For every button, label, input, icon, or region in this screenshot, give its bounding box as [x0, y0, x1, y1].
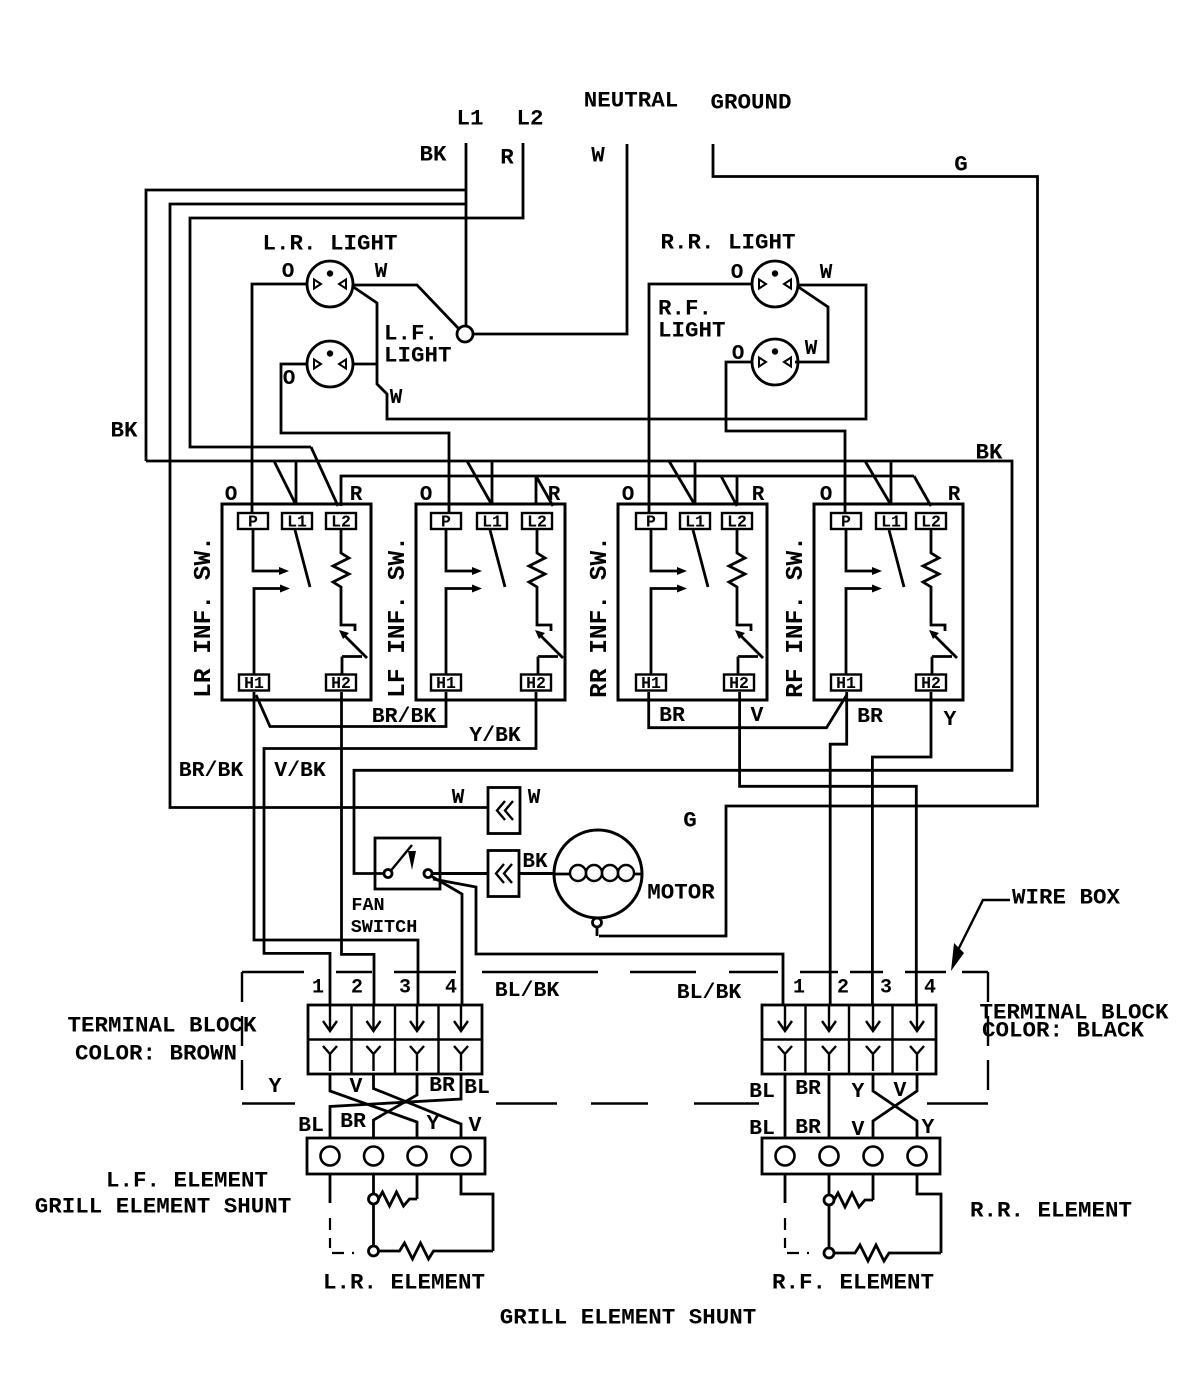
svg-text:SWITCH: SWITCH	[351, 917, 418, 938]
svg-text:3: 3	[880, 977, 892, 1000]
lamp R.R. LIGHT body	[752, 261, 798, 307]
node left lower shunt circle	[369, 1246, 379, 1256]
svg-text:L1: L1	[456, 106, 483, 132]
wire Y brown T1 to element 3	[330, 1074, 417, 1138]
svg-text:NEUTRAL: NEUTRAL	[584, 88, 679, 114]
terminal block brown pin 3 fork	[410, 1046, 424, 1071]
terminal block brown pin 2 fork	[367, 1046, 381, 1071]
switch SW3 wire to H2	[738, 657, 758, 675]
svg-text:W: W	[528, 787, 541, 810]
wire box dashed top edge	[905, 971, 946, 973]
element connector right outline	[762, 1138, 940, 1174]
svg-text:O: O	[225, 484, 238, 507]
wire Y SW4 H2 down to black T3	[872, 692, 931, 1005]
svg-text:Y: Y	[944, 708, 957, 732]
motor coil loop 4	[618, 865, 634, 881]
switch SW2 P contact line	[446, 529, 472, 571]
wire BL/BK fan to brown T4	[431, 876, 462, 1005]
switch SW2 outline	[416, 504, 565, 700]
switch SW3 P contact line	[651, 529, 677, 571]
switch SW1 H1 contact line	[254, 589, 280, 675]
switch SW1 upper contact arrow	[279, 567, 289, 575]
wire BR/BK SW1 H1 down to brown T3	[254, 692, 418, 1005]
wire box dashed top edge	[630, 971, 696, 973]
terminal block brown column divider 2	[394, 1005, 396, 1074]
switch SW2 wire to H2	[538, 657, 558, 675]
svg-text:LIGHT: LIGHT	[658, 318, 726, 344]
svg-text:BL: BL	[464, 1076, 490, 1100]
terminal block black pin 1 fork	[778, 1046, 792, 1071]
lamp R.R. LIGHT right pin	[784, 280, 791, 289]
svg-text:W: W	[591, 143, 605, 169]
svg-text:2: 2	[351, 977, 363, 1000]
svg-text:R.R. ELEMENT: R.R. ELEMENT	[970, 1198, 1132, 1224]
wire BR brown T3 to element 2	[374, 1074, 418, 1138]
svg-text:BR/BK: BR/BK	[372, 705, 437, 729]
svg-text:TERMINAL BLOCK: TERMINAL BLOCK	[67, 1013, 257, 1039]
wire motor bottom stub	[596, 927, 599, 936]
wire BK jog into SW3 L1	[669, 461, 695, 505]
wire left element2 to upper shunt	[372, 1174, 375, 1194]
terminal box SW3 H1	[636, 675, 666, 691]
switch SW4 thermostat arrowhead	[929, 630, 939, 639]
svg-text:L2: L2	[331, 513, 351, 532]
terminal block black pin 4 fork	[910, 1046, 924, 1071]
wire box dashed bottom edge	[927, 1102, 988, 1104]
wire W branch left-down to fan connector	[170, 204, 488, 808]
svg-text:O: O	[731, 262, 744, 285]
fan switch right pin	[424, 870, 432, 878]
svg-text:O: O	[820, 484, 833, 507]
svg-text:BK: BK	[975, 440, 1003, 466]
terminal block black pin 2 fork	[822, 1046, 836, 1071]
terminal block brown pin 1 arrow head	[323, 1021, 337, 1031]
terminal block brown pin 2 wire	[372, 1005, 374, 1029]
terminal block brown row divider	[308, 1038, 482, 1040]
svg-text:BR: BR	[795, 1077, 821, 1101]
wire V black T4 to element 3	[873, 1074, 917, 1137]
motor body	[554, 830, 642, 918]
switch SW4 L1 blade diagonal	[889, 530, 904, 587]
lamp L.F. LIGHT center dot	[327, 350, 333, 356]
svg-text:H2: H2	[921, 674, 941, 693]
switch SW4 wire to H2	[932, 657, 952, 675]
terminal block brown pin 4 wire	[460, 1005, 462, 1029]
wire BL/BK fan to black T1	[433, 879, 783, 1005]
wire O from LR light to SW1 P	[252, 284, 307, 513]
terminal box SW4 H2	[916, 675, 946, 691]
fan switch arm	[391, 845, 412, 871]
lamp L.F. LIGHT right pin	[339, 360, 346, 369]
terminal box SW1 P	[238, 513, 268, 529]
wire left element1 dashed continuation	[329, 1218, 331, 1248]
switch SW2 resistor element	[529, 529, 551, 631]
element connector left circle 3	[408, 1147, 427, 1166]
wire R branch jog into SW2 L2	[536, 476, 553, 506]
switch SW3 upper contact arrow	[677, 567, 687, 575]
switch SW2 L1 blade diagonal	[490, 530, 505, 587]
switch SW1 P contact line	[253, 529, 279, 571]
wire box dashed bottom edge	[496, 1102, 557, 1104]
wire BR black T2 to element 2	[828, 1074, 831, 1138]
element connector left circle 2	[364, 1147, 383, 1166]
element connector left circle 4	[452, 1147, 471, 1166]
wire left element3 to upper shunt	[416, 1174, 419, 1199]
wire R branch jog into SW4 L2	[914, 476, 931, 506]
svg-text:2: 2	[837, 977, 849, 1000]
terminal block brown pin 4 arrow head	[454, 1021, 468, 1031]
lamp L.R. LIGHT body	[307, 261, 353, 307]
svg-text:G: G	[683, 808, 697, 834]
svg-text:COLOR: BLACK: COLOR: BLACK	[982, 1018, 1145, 1044]
wire left element4 wrap to lower shunt	[461, 1174, 493, 1251]
svg-text:H2: H2	[331, 674, 351, 693]
wire BK jog into SW4 L1	[865, 461, 891, 505]
switch SW2 lower contact arrow	[472, 585, 482, 593]
wire W neutral down to junction circle	[473, 144, 627, 334]
wire box dashed top edge	[482, 971, 598, 973]
node motor bottom terminal circle	[593, 918, 602, 927]
wire Y black T3 to element 4	[873, 1074, 917, 1137]
lamp L.R. LIGHT right pin	[339, 280, 346, 289]
wire box dashed top edge	[962, 971, 988, 973]
resistor left upper shunt	[379, 1192, 418, 1206]
svg-text:GRILL ELEMENT SHUNT: GRILL ELEMENT SHUNT	[35, 1194, 292, 1220]
lamp L.R. LIGHT left pin	[314, 280, 321, 289]
switch SW2 H1 contact line	[446, 589, 472, 675]
svg-text:P: P	[841, 513, 851, 532]
motor coil loop 2	[586, 865, 602, 881]
terminal block brown pin 3 wire	[416, 1005, 418, 1029]
switch SW1 wire to H2	[342, 657, 362, 675]
svg-text:H2: H2	[729, 674, 749, 693]
terminal block black pin 1 wire	[784, 1005, 786, 1029]
wire box dashed bottom edge	[242, 1102, 295, 1104]
element connector right circle 2	[820, 1147, 839, 1166]
svg-text:R: R	[948, 484, 961, 507]
svg-text:GROUND: GROUND	[710, 90, 791, 116]
lamp R.F. LIGHT center dot	[772, 348, 778, 354]
wire Y/BK SW2 H2 to brown T1	[264, 692, 536, 1005]
svg-text:BR: BR	[429, 1074, 455, 1098]
svg-text:MOTOR: MOTOR	[647, 880, 715, 906]
svg-text:H1: H1	[641, 674, 661, 693]
switch SW3 H1 contact line	[651, 589, 677, 675]
svg-text:H1: H1	[244, 674, 264, 693]
node right upper shunt circle	[824, 1195, 834, 1205]
connector BK chevrons	[496, 864, 512, 883]
wire R branch bus to L2 terminals	[341, 476, 914, 506]
svg-text:LR INF. SW.: LR INF. SW.	[191, 536, 218, 698]
switch SW4 thermostat arm	[932, 633, 957, 658]
terminal box SW3 P	[636, 513, 666, 529]
wire box leader line	[958, 900, 1010, 950]
svg-text:V: V	[751, 704, 764, 728]
svg-text:R.F. ELEMENT: R.F. ELEMENT	[772, 1270, 934, 1296]
element connector right circle 4	[908, 1147, 927, 1166]
svg-text:V: V	[350, 1075, 363, 1099]
switch SW1 thermostat arm	[342, 633, 367, 658]
svg-text:W: W	[390, 387, 403, 410]
wire box dashed top edge	[394, 971, 456, 973]
terminal box SW1 H1	[239, 675, 269, 691]
wire right element1 stub	[784, 1174, 787, 1203]
svg-text:4: 4	[445, 977, 457, 1000]
terminal box SW2 H1	[431, 675, 461, 691]
svg-text:R.R. LIGHT: R.R. LIGHT	[660, 230, 795, 256]
switch SW4 outline	[814, 504, 963, 700]
wire O from RR light to SW3 P	[649, 284, 752, 513]
svg-text:Y: Y	[269, 1075, 282, 1099]
switch SW2 upper contact arrow	[472, 567, 482, 575]
wire W diagonal junction to LR light W pin	[352, 285, 459, 329]
svg-text:BK: BK	[110, 418, 138, 444]
svg-text:1: 1	[793, 977, 805, 1000]
terminal box SW3 H2	[724, 675, 754, 691]
switch SW3 resistor element	[729, 529, 751, 631]
switch SW4 upper contact arrow	[872, 567, 882, 575]
terminal box SW2 L1	[477, 513, 507, 529]
wire box dashed bottom edge	[591, 1102, 648, 1104]
wire box dashed top edge	[850, 971, 883, 973]
wire R branch jog into SW3 L2	[721, 476, 737, 506]
svg-text:L2: L2	[727, 513, 747, 532]
svg-text:L.F. ELEMENT: L.F. ELEMENT	[106, 1168, 268, 1194]
connector W box	[488, 788, 520, 834]
svg-text:R: R	[350, 484, 363, 507]
element connector right circle 1	[776, 1147, 795, 1166]
svg-text:H1: H1	[436, 674, 456, 693]
wire BR SW4 H1 down to black T2	[830, 692, 847, 1005]
fan switch box	[375, 838, 440, 889]
wire box dashed top edge	[729, 971, 778, 973]
terminal box SW1 L2	[326, 513, 356, 529]
svg-text:O: O	[622, 484, 635, 507]
terminal block brown pin 2 arrow head	[367, 1021, 381, 1031]
switch SW1 outline	[222, 504, 371, 700]
wire BK branch left and down to bus	[146, 190, 466, 461]
svg-text:RR INF. SW.: RR INF. SW.	[587, 536, 614, 698]
wire W RR light diagonal to RF light W pin	[795, 286, 828, 362]
motor coil loop 3	[602, 865, 618, 881]
element connector right circle 3	[864, 1147, 883, 1166]
switch SW4 H1 contact line	[846, 589, 872, 675]
terminal block black row divider	[762, 1038, 936, 1040]
terminal box SW1 H2	[326, 675, 356, 691]
svg-text:COLOR: BROWN: COLOR: BROWN	[75, 1041, 237, 1067]
svg-text:Y: Y	[922, 1116, 935, 1140]
lamp R.F. LIGHT right pin	[784, 358, 791, 367]
wire O from LF light to SW2 P	[281, 364, 449, 513]
svg-text:R: R	[500, 145, 514, 171]
svg-text:W: W	[820, 262, 833, 285]
terminal block black column divider 3	[891, 1005, 893, 1074]
svg-text:FAN: FAN	[351, 895, 384, 916]
terminal block black pin 3 wire	[872, 1005, 874, 1029]
wire V SW3 H2 down to black T4	[740, 692, 917, 1005]
svg-text:4: 4	[924, 977, 936, 1000]
svg-text:L1: L1	[482, 513, 502, 532]
wire G ground bus right side down to motor bottom	[599, 144, 1038, 936]
fan switch arrow	[408, 851, 416, 870]
wire L1 down to junction circle	[465, 143, 468, 326]
wire V brown T2 to element 4	[374, 1074, 462, 1138]
svg-text:BL: BL	[298, 1114, 324, 1138]
switch SW2 thermostat arrowhead	[535, 630, 545, 639]
terminal block brown column divider 3	[437, 1005, 439, 1074]
switch SW4 P contact line	[846, 529, 872, 571]
terminal box SW4 P	[831, 513, 861, 529]
switch SW2 thermostat arm	[538, 633, 563, 658]
svg-text:LF INF. SW.: LF INF. SW.	[385, 536, 412, 698]
switch SW1 L1 blade diagonal	[295, 530, 310, 587]
terminal block black pin 4 arrow head	[910, 1021, 924, 1031]
terminal block black pin 1 arrow head	[778, 1021, 792, 1031]
element connector left outline	[307, 1138, 485, 1174]
wire BR/BK link SW1 H1 to SW2 H1	[256, 692, 446, 727]
svg-text:O: O	[283, 368, 296, 391]
svg-text:BK: BK	[522, 851, 548, 874]
svg-text:O: O	[420, 484, 433, 507]
wire BR link SW3 H1 to SW4 H1	[649, 692, 847, 728]
wire R diagonal into SW1 L2	[311, 447, 338, 506]
node right lower shunt circle	[824, 1248, 834, 1258]
wire box dashed bottom edge	[694, 1102, 759, 1104]
wire right element1 dashed continuation	[784, 1218, 786, 1248]
node left upper shunt circle	[369, 1194, 379, 1204]
switch SW3 outline	[618, 504, 767, 700]
svg-text:BR: BR	[659, 704, 685, 728]
svg-text:3: 3	[399, 977, 411, 1000]
terminal block black pin 3 arrow head	[866, 1021, 880, 1031]
wire fan to motor through BK connector	[432, 872, 555, 875]
wire BK jog into SW1 L1	[274, 461, 296, 505]
resistor left lower shunt	[379, 1243, 494, 1259]
wire box dashed top edge	[336, 971, 372, 973]
svg-text:P: P	[441, 513, 451, 532]
terminal box SW2 H2	[521, 675, 551, 691]
svg-text:LIGHT: LIGHT	[384, 343, 452, 369]
wire right dashed stub horizontal	[787, 1252, 809, 1254]
wire box dashed top edge	[800, 971, 838, 973]
switch SW4 resistor element	[923, 529, 945, 631]
svg-text:Y/BK: Y/BK	[469, 724, 521, 748]
svg-text:W: W	[375, 261, 388, 284]
svg-text:H1: H1	[836, 674, 856, 693]
lamp L.R. LIGHT center dot	[327, 270, 333, 276]
svg-text:L2: L2	[921, 513, 941, 532]
svg-text:BR: BR	[340, 1110, 366, 1134]
wire box dashed right edge	[987, 972, 989, 1102]
svg-text:L1: L1	[685, 513, 705, 532]
wire box dashed top edge	[242, 971, 304, 973]
lamp R.R. LIGHT left pin	[759, 280, 766, 289]
terminal box SW4 L2	[916, 513, 946, 529]
wire W LR light to LF light W pin	[352, 286, 377, 364]
terminal box SW4 H1	[831, 675, 861, 691]
svg-text:L.R. ELEMENT: L.R. ELEMENT	[323, 1270, 485, 1296]
lamp R.R. LIGHT center dot	[772, 270, 778, 276]
terminal box SW3 L1	[680, 513, 710, 529]
svg-text:L1: L1	[287, 513, 307, 532]
terminal block brown column divider 1	[350, 1005, 352, 1074]
svg-text:Y: Y	[427, 1112, 440, 1136]
svg-text:WIRE BOX: WIRE BOX	[1012, 885, 1121, 911]
svg-text:L1: L1	[881, 513, 901, 532]
terminal box SW4 L1	[876, 513, 906, 529]
svg-text:O: O	[282, 261, 295, 284]
svg-text:V/BK: V/BK	[274, 759, 326, 783]
switch SW1 lower contact arrow	[280, 585, 290, 593]
wire right element2 to upper shunt	[828, 1174, 831, 1195]
svg-text:R: R	[752, 484, 765, 507]
svg-text:L2: L2	[527, 513, 547, 532]
svg-text:BL/BK: BL/BK	[495, 979, 560, 1003]
svg-text:BL: BL	[749, 1080, 775, 1104]
switch SW3 lower contact arrow	[677, 585, 687, 593]
terminal block brown pin 1 wire	[329, 1005, 331, 1029]
wire V/BK SW1 H2 down to brown T2	[342, 692, 375, 1005]
terminal box SW2 L2	[522, 513, 552, 529]
wire right element3 to upper shunt	[872, 1174, 875, 1200]
terminal block black column divider 1	[804, 1005, 806, 1074]
svg-text:GRILL ELEMENT SHUNT: GRILL ELEMENT SHUNT	[500, 1305, 757, 1331]
svg-text:1: 1	[312, 977, 324, 1000]
element connector left circle 1	[321, 1147, 340, 1166]
svg-text:BR/BK: BR/BK	[179, 759, 244, 783]
svg-text:L.R. LIGHT: L.R. LIGHT	[262, 231, 397, 257]
terminal block black pin 2 arrow head	[822, 1021, 836, 1031]
svg-text:H2: H2	[526, 674, 546, 693]
resistor right upper shunt	[834, 1193, 873, 1207]
terminal block black pin 2 wire	[828, 1005, 830, 1029]
svg-text:R: R	[548, 484, 561, 507]
switch SW1 thermostat arrowhead	[339, 630, 349, 639]
wire W from LF light down along y419 to RR light W pin	[377, 285, 866, 419]
wire left element1 stub	[329, 1174, 332, 1203]
terminal block brown pin 1 fork	[323, 1046, 337, 1071]
switch SW3 thermostat arrowhead	[735, 630, 745, 639]
svg-text:L2: L2	[516, 106, 543, 132]
lamp L.F. LIGHT left pin	[314, 360, 321, 369]
wire left between shunt circles	[372, 1204, 375, 1246]
terminal block black pin 3 fork	[866, 1046, 880, 1071]
wire BL brown T4 to element 1	[330, 1074, 461, 1138]
svg-text:G: G	[954, 152, 968, 178]
connector BK box	[488, 851, 519, 897]
wire box dashed left edge	[241, 972, 243, 1104]
svg-text:BR: BR	[795, 1116, 821, 1140]
svg-text:RF INF. SW.: RF INF. SW.	[783, 536, 810, 698]
wire O from RF light to SW4 P	[726, 362, 845, 513]
wire left dashed stub horizontal	[332, 1252, 354, 1254]
svg-text:V: V	[469, 1114, 482, 1138]
svg-text:W: W	[805, 338, 818, 361]
wire L2/R down, left, down to R bus	[190, 143, 523, 447]
wire BK jog into SW2 L1	[467, 461, 492, 505]
wire right element4 wrap to lower shunt	[917, 1174, 941, 1253]
motor coil leads	[555, 873, 642, 876]
motor coil loop 1	[570, 865, 586, 881]
fan switch left pin	[384, 870, 392, 878]
lamp L.F. LIGHT body	[307, 341, 353, 387]
switch SW4 lower contact arrow	[872, 585, 882, 593]
resistor right lower shunt	[834, 1245, 941, 1261]
terminal box SW1 L1	[282, 513, 312, 529]
svg-text:Y: Y	[852, 1080, 865, 1104]
terminal block brown pin 4 fork	[454, 1046, 468, 1071]
lamp R.F. LIGHT left pin	[759, 358, 766, 367]
